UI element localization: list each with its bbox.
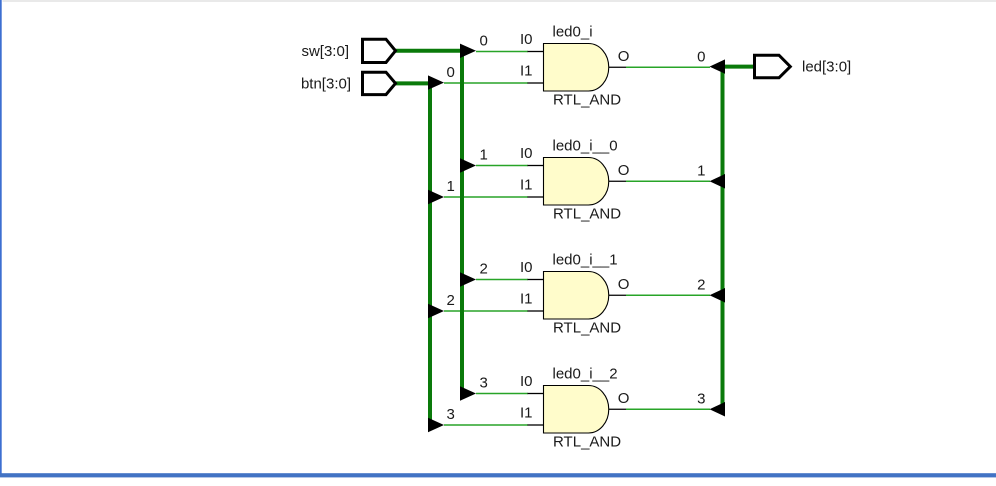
pin led0_i__2.I0 stub: [528, 393, 544, 395]
svg-text:0: 0: [480, 33, 488, 50]
input port sw[3:0]: [363, 39, 396, 62]
output port led[3:0]: [755, 55, 791, 78]
wire led0_i__0.O to led[1] tap: [626, 180, 710, 182]
svg-text:RTL_AND: RTL_AND: [553, 320, 621, 337]
svg-text:O: O: [618, 276, 630, 293]
junction arrow sw[3:0] bit 2 tap: [460, 272, 476, 286]
svg-text:I1: I1: [520, 291, 533, 308]
junction arrow led[3:0] bit 0 merge: [710, 59, 726, 73]
pin led0_i__2.I1 stub: [528, 424, 544, 426]
and-gate U1 led0_i (RTL_AND): [544, 44, 609, 92]
svg-text:1: 1: [480, 147, 488, 164]
svg-text:I1: I1: [520, 405, 533, 422]
svg-text:led[3:0]: led[3:0]: [802, 59, 851, 76]
svg-text:RTL_AND: RTL_AND: [553, 206, 621, 223]
pin led0_i.O stub: [609, 66, 626, 68]
svg-text:3: 3: [697, 390, 705, 407]
pin led0_i__1.O stub: [609, 294, 626, 296]
junction arrow btn[3:0] bit 2 tap: [428, 304, 444, 318]
junction arrow btn[3:0] bit 0 tap: [428, 75, 444, 89]
wire btn[3] tap to led0_i__2.I1: [444, 424, 528, 426]
svg-text:3: 3: [447, 406, 455, 423]
window left blue border: [0, 0, 2, 477]
svg-text:O: O: [618, 48, 630, 65]
junction arrow led[3:0] bit 3 merge: [710, 402, 726, 416]
svg-text:I0: I0: [520, 373, 533, 390]
wire sw[0] tap to led0_i.I0: [476, 51, 528, 53]
wire sw[3] tap to led0_i__2.I0: [476, 393, 528, 395]
pin led0_i__0.I0 stub: [528, 165, 544, 167]
junction arrow btn[3:0] bit 1 tap: [428, 190, 444, 204]
svg-text:led0_i__0: led0_i__0: [553, 138, 618, 155]
bus btn[3:0] horizontal + vertical trunk: [394, 83, 430, 425]
bus led[3:0] vertical trunk + horizontal to port: [723, 67, 755, 410]
svg-text:3: 3: [480, 375, 488, 392]
pin led0_i__1.I0 stub: [528, 279, 544, 281]
junction arrow sw[3:0] bit 3 tap: [460, 386, 476, 400]
and-gate U4 led0_i__2 (RTL_AND): [544, 386, 609, 434]
window bottom blue border: [0, 473, 996, 477]
junction arrow led[3:0] bit 1 merge: [710, 174, 726, 188]
svg-text:btn[3:0]: btn[3:0]: [301, 75, 351, 92]
junction arrow btn[3:0] bit 3 tap: [428, 418, 444, 432]
and-gate U3 led0_i__1 (RTL_AND): [544, 272, 609, 320]
svg-text:I1: I1: [520, 177, 533, 194]
svg-text:2: 2: [697, 276, 705, 293]
svg-text:sw[3:0]: sw[3:0]: [301, 43, 349, 60]
svg-text:O: O: [618, 162, 630, 179]
bus sw[3:0] horizontal + vertical trunk: [394, 51, 462, 394]
wire sw[2] tap to led0_i__1.I0: [476, 279, 528, 281]
pin led0_i__0.I1 stub: [528, 196, 544, 198]
svg-text:1: 1: [697, 162, 705, 179]
svg-text:led0_i__1: led0_i__1: [553, 252, 618, 269]
svg-text:I0: I0: [520, 145, 533, 162]
svg-text:0: 0: [447, 64, 455, 81]
svg-text:RTL_AND: RTL_AND: [553, 92, 621, 109]
wire btn[2] tap to led0_i__1.I1: [444, 310, 528, 312]
svg-text:led0_i__2: led0_i__2: [553, 366, 618, 383]
svg-text:O: O: [618, 390, 630, 407]
wire btn[1] tap to led0_i__0.I1: [444, 196, 528, 198]
pin led0_i.I0 stub: [528, 51, 544, 53]
pin led0_i__1.I1 stub: [528, 310, 544, 312]
input port btn[3:0]: [363, 72, 396, 94]
svg-text:RTL_AND: RTL_AND: [553, 434, 621, 451]
wire sw[1] tap to led0_i__0.I0: [476, 165, 528, 167]
svg-text:I0: I0: [520, 31, 533, 48]
pin led0_i__2.O stub: [609, 408, 626, 410]
svg-text:0: 0: [697, 48, 705, 65]
wire led0_i__2.O to led[3] tap: [626, 408, 710, 410]
junction arrow sw[3:0] bit 1 tap: [460, 158, 476, 172]
junction arrow led[3:0] bit 2 merge: [710, 288, 726, 302]
junction arrow sw[3:0] bit 0 tap: [460, 44, 476, 58]
wire btn[0] tap to led0_i.I1: [444, 82, 528, 84]
svg-text:I1: I1: [520, 63, 533, 80]
svg-text:led0_i: led0_i: [553, 24, 593, 41]
pin led0_i__0.O stub: [609, 180, 626, 182]
svg-text:1: 1: [447, 178, 455, 195]
svg-text:2: 2: [447, 292, 455, 309]
wire led0_i.O to led[0] tap: [626, 66, 710, 68]
window top gray strip: [3, 0, 996, 2]
pin led0_i.I1 stub: [528, 82, 544, 84]
svg-text:2: 2: [480, 261, 488, 278]
and-gate U2 led0_i__0 (RTL_AND): [544, 158, 609, 206]
svg-text:I0: I0: [520, 259, 533, 276]
wire led0_i__1.O to led[2] tap: [626, 294, 710, 296]
